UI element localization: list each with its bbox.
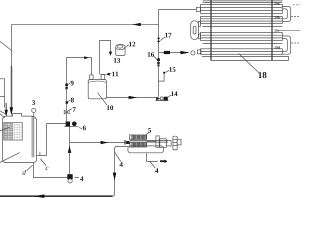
machine hatch top — [133, 135, 147, 140]
label 6 — [83, 126, 86, 131]
feed line to machine — [70, 142, 127, 144]
label 4 bypass — [119, 162, 122, 167]
rail mid — [203, 26, 283, 28]
gauge 3 on tank — [32, 108, 36, 116]
vessel V10 body — [88, 79, 106, 98]
wire right pipe vertical — [158, 10, 160, 97]
tube 1 — [201, 5, 283, 14]
machine ribbed neck bottom — [130, 142, 133, 147]
valve 16 — [157, 58, 160, 66]
machine gearbox — [160, 139, 171, 148]
wire valve stack line — [66, 58, 68, 122]
feed arrow 2 into tank — [10, 107, 14, 115]
wire d outlet from tank bottom — [34, 163, 68, 178]
leader 10 — [97, 92, 107, 105]
leader 15 — [165, 70, 169, 72]
wire bypass from machine base — [113, 147, 128, 197]
label 13 — [114, 58, 117, 63]
valve 9 — [65, 83, 70, 89]
label 12 — [129, 42, 132, 47]
node arrow right at drain — [160, 160, 167, 164]
label 5 — [148, 128, 151, 133]
dashed stub low — [291, 42, 300, 44]
label 17 — [165, 33, 168, 38]
label 11 — [112, 72, 115, 77]
machine bearing plate — [156, 136, 159, 147]
label 9 — [71, 81, 74, 86]
tank T1 dome — [3, 113, 37, 120]
wire bottom return line — [0, 195, 113, 197]
tube 2 — [201, 17, 283, 24]
wire vessel outlet to 14 — [106, 97, 156, 99]
feed arrow 1 into tank — [5, 103, 8, 117]
leader 18 — [239, 53, 259, 72]
wire top feed to bank — [159, 9, 197, 11]
node arrow right on feed — [101, 141, 109, 144]
tank dip tube — [32, 116, 34, 157]
leader 17 — [160, 37, 165, 41]
wire branch to tube 4 — [159, 52, 189, 54]
wire top long line — [12, 24, 159, 26]
leader d — [27, 165, 33, 170]
machine end cylinder — [173, 136, 181, 150]
tube 3 — [201, 33, 283, 41]
leader 4 pump — [74, 177, 79, 179]
label 14 — [171, 91, 174, 96]
vessel V10 dome line — [88, 81, 106, 82]
node arrow down to pot — [109, 52, 112, 56]
rail top — [203, 1, 283, 3]
tiny tube tag 2 — [274, 16, 275, 18]
rail low — [203, 43, 283, 45]
fitting circle at tube 4 inlet — [191, 51, 195, 55]
wire top-left diagonal — [0, 41, 12, 50]
dashed stub mid — [291, 16, 300, 18]
vessel V10 right nozzle — [100, 74, 105, 79]
right bend B tubes 3-4 — [282, 36, 290, 54]
leader 5 — [144, 132, 149, 136]
junction 6 assembly — [64, 122, 78, 127]
leader 14 — [168, 95, 171, 97]
leader to dome — [0, 114, 5, 118]
leader into tank body — [0, 153, 20, 163]
tank hatch grid — [4, 123, 23, 141]
valve 8 — [66, 100, 71, 104]
machine shaft — [130, 140, 168, 142]
machine ribbed neck top — [130, 135, 133, 140]
valve 17 — [157, 38, 160, 42]
pump P4 — [67, 174, 72, 183]
machine drain — [147, 153, 158, 162]
node arrow right on branch — [180, 51, 189, 54]
tube 4 inlet box — [197, 50, 201, 54]
vertical crosser A — [210, 0, 212, 61]
tank T1 body — [3, 120, 37, 162]
label 16 — [148, 52, 151, 57]
machine base — [128, 146, 164, 153]
tiny tube tag 1 — [274, 2, 275, 4]
label d — [23, 170, 26, 175]
wire c return to tank — [37, 124, 66, 156]
node arrow down on bypass — [113, 173, 117, 181]
label 7 — [73, 107, 76, 112]
leader into hatch — [0, 127, 10, 131]
wire vent riser to pot — [100, 41, 111, 75]
label 3 — [32, 100, 35, 105]
vertical crosser B — [271, 0, 273, 61]
label c — [46, 167, 49, 170]
label 10 — [107, 105, 110, 110]
hopper box at left edge — [0, 79, 7, 115]
wire top-left vertical — [11, 25, 13, 67]
leader c — [40, 159, 46, 166]
wire pump riser — [69, 126, 71, 174]
label 4 pump — [80, 176, 83, 181]
valve 7 — [64, 109, 72, 114]
label 15 — [169, 67, 172, 72]
dashed stub top — [293, 4, 300, 6]
leader 16 — [154, 56, 157, 59]
label 4 drain — [155, 168, 158, 173]
wire top-left vertical thick — [11, 66, 13, 109]
vessel V10 left nozzle — [90, 75, 93, 80]
node blob at branch tee — [164, 51, 170, 54]
node arrow up on riser — [68, 146, 72, 153]
tiny tube tag 3 — [274, 29, 275, 31]
node c stub — [39, 152, 41, 156]
bottom header lower line — [211, 60, 289, 62]
tube 4 — [201, 49, 283, 55]
wire bracket to vessel 10 — [67, 58, 92, 75]
right bend A tubes 1-2 — [282, 6, 290, 21]
leader 11 arrow — [106, 73, 112, 76]
node arrow right on outlet — [129, 96, 138, 99]
machine hatch bottom — [133, 142, 147, 147]
leader 12 — [124, 45, 129, 49]
drain diagonal leader — [150, 162, 155, 168]
node arrow left on bottom line — [34, 194, 45, 198]
label 18 — [259, 72, 262, 78]
node arrow left on top line — [132, 23, 141, 26]
machine inlet flange — [124, 140, 129, 145]
leader 4 bypass — [115, 152, 121, 161]
left bend capsule tubes 2-3 — [191, 21, 201, 40]
pot 13 — [116, 44, 125, 55]
sample stub 15 — [158, 72, 165, 81]
trap assembly 14 — [156, 97, 169, 101]
bottom header upper line — [202, 57, 289, 61]
tube 1 inlet box — [196, 7, 200, 11]
tiny tube tag 4 — [274, 46, 275, 48]
label 8 — [71, 98, 74, 103]
gap line to edge — [279, 30, 300, 32]
node arrow right on bracket — [84, 56, 89, 59]
leader 6 — [79, 128, 82, 129]
